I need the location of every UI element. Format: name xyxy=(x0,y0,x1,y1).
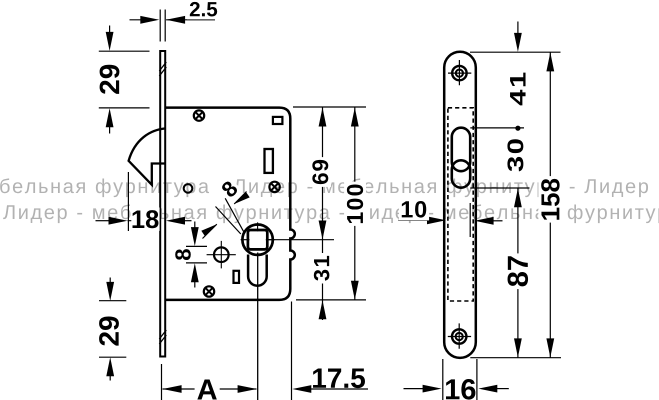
watermark row 1 xyxy=(0,178,648,197)
extension line body bottom right xyxy=(296,299,366,301)
follower circle xyxy=(242,225,272,255)
follower center ticks xyxy=(241,222,275,239)
diag arrow upper xyxy=(234,192,250,204)
plate top screw target xyxy=(452,66,466,80)
screw bottom-left xyxy=(204,286,214,296)
label A xyxy=(195,377,220,400)
dim 16 arrows xyxy=(404,388,426,390)
watermark row 2 xyxy=(3,204,659,223)
strip break marks lower xyxy=(159,330,166,344)
centerline / extension for A and 17.5 xyxy=(257,253,259,400)
crosshair hole 8mm xyxy=(214,247,229,262)
dim A extension and line xyxy=(161,364,163,400)
dim 31 line and bottom outside arrow xyxy=(322,240,324,320)
dim 2.5 ext lines xyxy=(160,10,165,42)
label 8 hole xyxy=(175,249,191,260)
dim 17.5 extension and line xyxy=(291,302,293,400)
vertical slot rect right xyxy=(265,149,273,173)
dashed lock body behind plate xyxy=(448,108,473,301)
label 41 xyxy=(507,70,528,108)
label 69 xyxy=(310,157,332,187)
dim 100 line xyxy=(354,107,356,300)
label 30 xyxy=(505,136,527,174)
slot lower obround xyxy=(452,160,470,187)
dim 29 lower ticks xyxy=(99,301,126,358)
dim 18 line and arrows xyxy=(96,220,112,222)
strip break marks upper xyxy=(159,62,166,76)
screw top-left xyxy=(194,110,204,120)
label 100 xyxy=(344,182,366,226)
dim 8 vertical ticks xyxy=(186,246,207,263)
label 18 xyxy=(131,208,159,231)
lock case body xyxy=(166,108,295,300)
chain arrow down at plate bottom xyxy=(514,338,522,357)
label 29 lower xyxy=(96,314,121,349)
faceplate front view outline xyxy=(444,52,476,358)
label 10 xyxy=(399,198,429,220)
chain dot xyxy=(515,126,520,131)
label 8 square xyxy=(216,176,243,203)
plate bottom screw target xyxy=(452,329,466,343)
screw right xyxy=(269,182,279,192)
label 17.5 xyxy=(313,369,365,389)
dim 18 extension line at hook tip xyxy=(127,172,129,231)
label 2.5 xyxy=(187,0,220,19)
cylinder stem xyxy=(248,255,267,286)
label 31 xyxy=(311,253,332,284)
chain dimension line 41/30/87 xyxy=(517,22,519,39)
label 16 xyxy=(446,379,475,400)
dim 29 lower arrows xyxy=(109,278,111,289)
dim 29 upper arrows xyxy=(109,26,111,39)
small rect near cylinder xyxy=(234,271,240,283)
dim 16 extension lines xyxy=(443,359,477,400)
label 158 xyxy=(538,176,562,223)
dim 158 line xyxy=(549,52,551,358)
slot upper obround xyxy=(452,128,470,172)
diag ext line 1 xyxy=(225,198,244,233)
plate extension lines xyxy=(470,52,561,358)
diag arrow lower xyxy=(201,224,217,236)
dim 2.5 line and arrows xyxy=(130,19,147,21)
follower square 8mm xyxy=(248,230,267,249)
chain arrow up at slot bottom xyxy=(514,188,522,207)
label 87 xyxy=(505,253,531,289)
label 29 upper xyxy=(97,62,122,97)
hole left xyxy=(184,184,193,193)
dim 8 arrows xyxy=(194,222,196,235)
dim 29 upper ticks xyxy=(99,51,150,108)
dim 69 line xyxy=(322,107,324,239)
small rect top-right xyxy=(273,117,283,124)
extension line body top right xyxy=(293,106,366,108)
faceplate strip (side view) xyxy=(160,51,165,357)
extension line at slot edge for dim 10 xyxy=(469,203,471,237)
extension line follower center right xyxy=(268,239,334,241)
hook bolt xyxy=(129,128,166,184)
dim 10 arrows xyxy=(399,219,431,221)
diag ext line 2 xyxy=(216,207,241,235)
